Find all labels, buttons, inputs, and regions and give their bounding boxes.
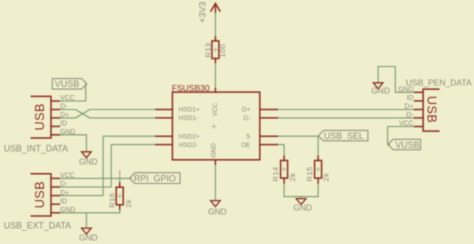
svg-text:HSD2-: HSD2- [179, 142, 199, 149]
svg-text:R13: R13 [204, 43, 213, 58]
svg-text:GND: GND [371, 85, 390, 95]
svg-text:USB_SEL: USB_SEL [324, 131, 364, 141]
svg-text:GND: GND [208, 207, 227, 217]
svg-text:D-: D- [60, 104, 67, 111]
svg-text:GND: GND [79, 156, 98, 166]
svg-text:GND: GND [398, 87, 413, 94]
svg-text:S: S [246, 133, 251, 140]
svg-text:ID: ID [60, 198, 67, 205]
svg-text:GND: GND [293, 203, 312, 213]
svg-text:USB: USB [33, 181, 47, 208]
svg-text:2k: 2k [124, 199, 133, 208]
svg-text:R14: R14 [271, 167, 280, 182]
svg-text:VUSB: VUSB [395, 140, 419, 150]
svg-text:D+: D+ [242, 107, 251, 114]
svg-text:USB_PEN_DATA: USB_PEN_DATA [406, 77, 472, 87]
svg-text:GND: GND [60, 207, 75, 214]
svg-text:R15: R15 [305, 167, 314, 182]
svg-text:D+: D+ [404, 104, 413, 111]
svg-text:FSUSB30: FSUSB30 [172, 83, 210, 93]
svg-text:VCC: VCC [399, 121, 414, 128]
svg-text:2k: 2k [288, 173, 297, 182]
svg-text:RPI_GPIO: RPI_GPIO [134, 173, 176, 183]
svg-text:D-: D- [244, 115, 251, 122]
svg-text:VUSB: VUSB [55, 79, 80, 89]
svg-text:GND: GND [79, 232, 98, 242]
svg-text:ID: ID [60, 121, 67, 128]
svg-text:USB: USB [33, 103, 47, 130]
svg-text:100: 100 [218, 44, 227, 58]
svg-text:ID: ID [407, 95, 414, 102]
svg-text:GND: GND [60, 129, 75, 136]
svg-text:D+: D+ [60, 190, 69, 197]
svg-text:USB_INT_DATA: USB_INT_DATA [4, 143, 68, 153]
svg-text:2k: 2k [321, 173, 330, 182]
svg-text:VCC: VCC [60, 95, 75, 102]
svg-text:D-: D- [406, 112, 413, 119]
svg-text:USB_EXT_DATA: USB_EXT_DATA [4, 220, 71, 230]
svg-text:HSD1+: HSD1+ [179, 107, 200, 114]
svg-text:VCC: VCC [60, 173, 75, 180]
svg-text:OE: OE [241, 142, 251, 149]
svg-text:USB: USB [425, 96, 439, 123]
svg-text:D+: D+ [60, 112, 69, 119]
svg-text:D-: D- [60, 181, 67, 188]
svg-text:GND: GND [211, 143, 218, 158]
svg-text:HSD1-: HSD1- [179, 115, 199, 122]
svg-text:HSD2+: HSD2+ [179, 133, 200, 140]
svg-text:VCC: VCC [212, 102, 219, 116]
svg-text:+3V3: +3V3 [198, 2, 208, 23]
svg-text:R16: R16 [107, 193, 116, 208]
